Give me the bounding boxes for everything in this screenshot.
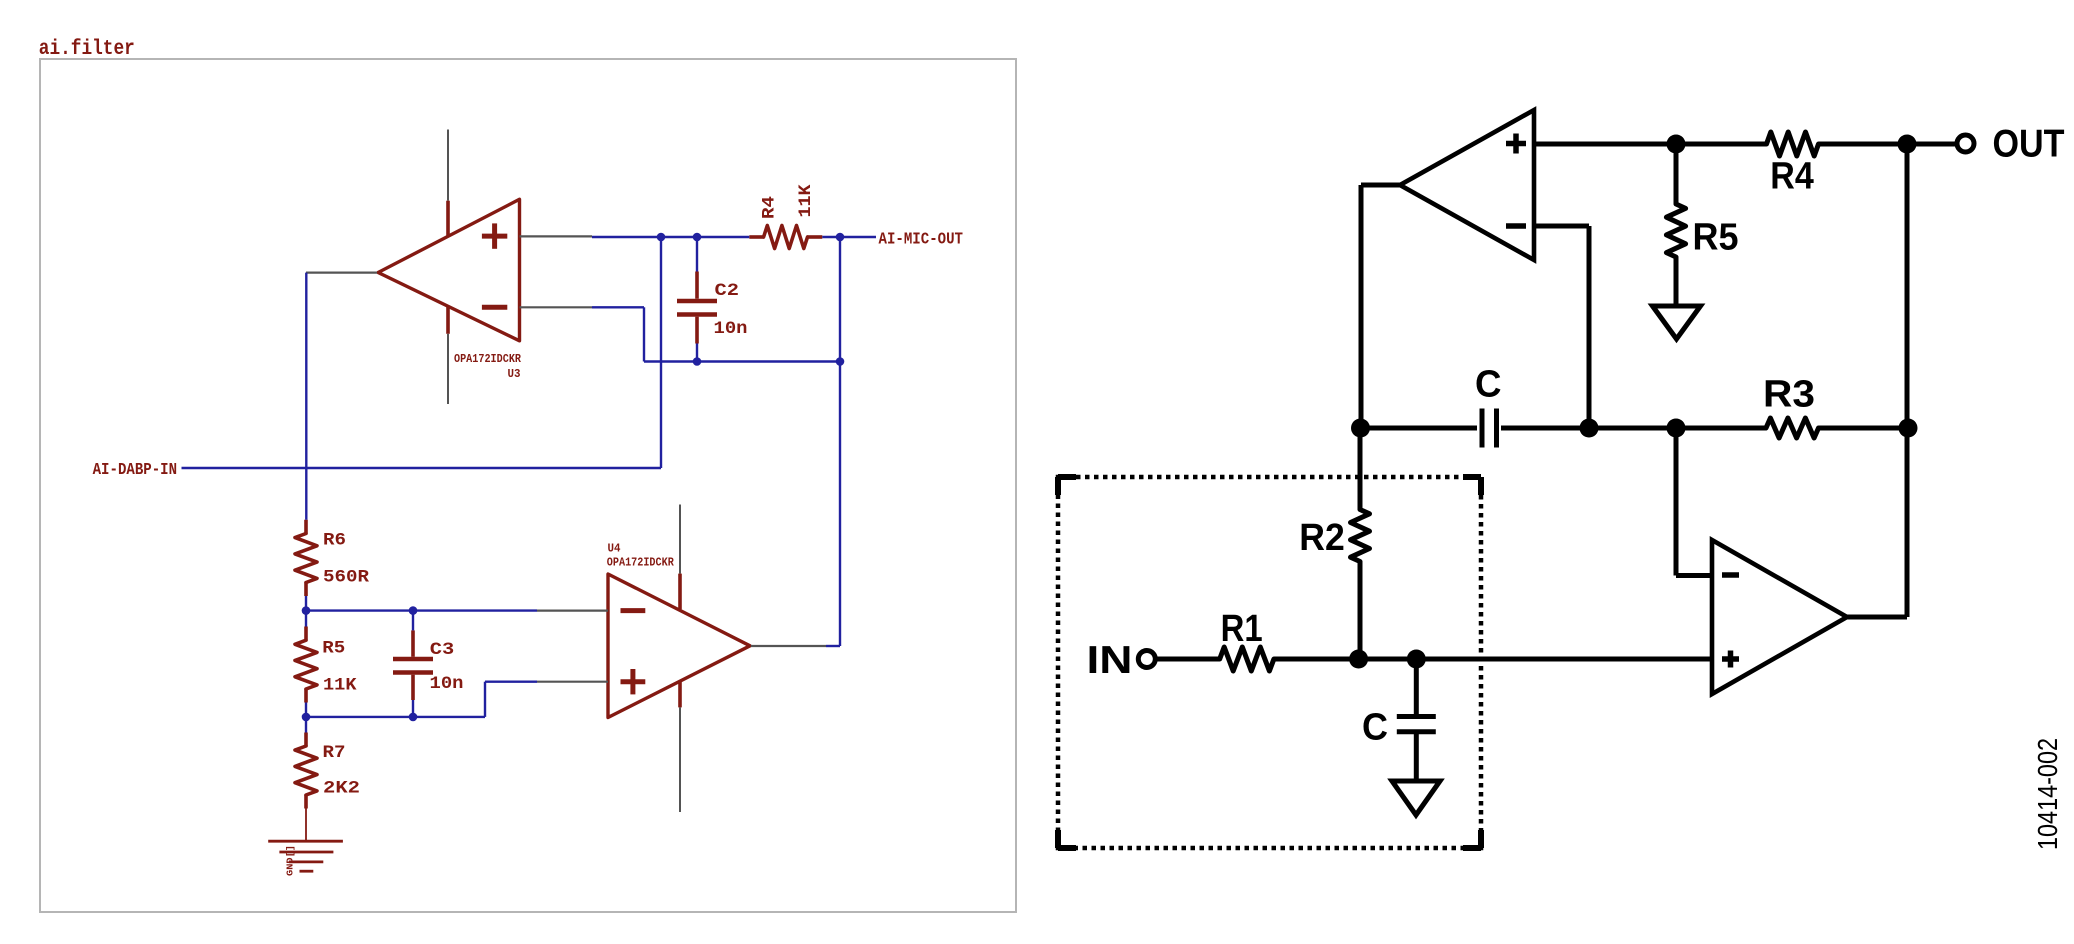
U3 plus input marker — [482, 234, 507, 239]
R4 reference label (rotated) — [760, 196, 780, 219]
figure number 10414-002 (rotated) — [2032, 738, 2063, 850]
A1 minus marker — [1506, 223, 1526, 229]
junction at rail/vertical — [836, 357, 845, 366]
svg-text:560R: 560R — [323, 568, 370, 588]
wire vertical to U3 + net — [660, 237, 662, 468]
resistor R4 body — [749, 235, 763, 239]
IN terminal circle — [1138, 651, 1155, 668]
resistor R4 body (right figure) — [1767, 132, 1819, 156]
svg-text:C: C — [1362, 706, 1388, 748]
svg-text:R6: R6 — [323, 531, 346, 551]
resistor R5 body — [304, 627, 308, 641]
U4 V- power pin — [678, 681, 682, 707]
ground GNDREF symbol — [305, 809, 307, 842]
wire up to U4 + input — [484, 682, 486, 717]
svg-text:11K: 11K — [323, 676, 357, 696]
resistor R6 body — [304, 520, 308, 534]
svg-text:OPA172IDCKR: OPA172IDCKR — [607, 555, 675, 569]
junction R5/R7 — [302, 713, 311, 722]
junction dot C line at R3 — [1667, 419, 1686, 438]
svg-text:C2: C2 — [715, 281, 740, 301]
wire R3 to right vertical — [1819, 426, 1909, 431]
junction dot R2 bottom — [1349, 650, 1368, 669]
svg-text:2K2: 2K2 — [323, 778, 360, 798]
dotted box corner marks — [1058, 474, 1076, 480]
resistor R2 body — [1351, 510, 1370, 562]
wire R5 top — [1674, 144, 1679, 204]
wire junction to R5 — [305, 611, 307, 627]
wire U3 - input — [592, 306, 644, 308]
resistor R1 body — [1220, 647, 1274, 671]
junction dot C line left — [1351, 419, 1370, 438]
wire C3 bottom — [412, 700, 414, 717]
A1 plus marker — [1506, 141, 1526, 147]
wire C2 bottom — [696, 344, 698, 362]
wire feedback rail — [644, 360, 840, 362]
op-amp U4 body — [608, 574, 750, 718]
U3 minus input marker — [482, 305, 507, 310]
wire R6 to junction — [305, 596, 307, 611]
wire A1 + input line — [1534, 142, 1767, 147]
junction dot C line mid — [1580, 419, 1599, 438]
svg-text:R4: R4 — [760, 196, 780, 219]
wire to U4 + pin — [485, 681, 537, 683]
svg-text:R2: R2 — [1299, 517, 1345, 559]
wire IN to R1 — [1156, 657, 1220, 662]
wire AI-DABP-IN horizontal — [182, 467, 662, 469]
junction R6/R5 — [302, 606, 311, 615]
svg-text:ai.filter: ai.filter — [39, 38, 135, 61]
junction at C2 top — [693, 233, 702, 242]
wire R2 vertical top — [1358, 428, 1363, 510]
svg-text:R3: R3 — [1763, 374, 1815, 416]
svg-text:AI-DABP-IN: AI-DABP-IN — [93, 460, 178, 479]
ground net name (rotated) — [286, 845, 296, 876]
junction at C2 bottom — [693, 357, 702, 366]
wire bottom rail — [306, 716, 485, 718]
svg-text:R1: R1 — [1221, 608, 1263, 650]
wire mid rail to U4 - input — [306, 609, 537, 611]
junction at AI-MIC-OUT — [836, 233, 845, 242]
junction dot R3 right — [1899, 419, 1918, 438]
junction at + net / DABP — [657, 233, 666, 242]
wire A1 output left — [1361, 183, 1400, 188]
A2 minus marker — [1722, 572, 1739, 578]
wire AI-MIC-OUT vertical — [839, 237, 841, 646]
svg-text:R4: R4 — [1770, 155, 1814, 197]
wire - A2 vertical — [1674, 428, 1679, 576]
U4 inverting input pin (-) — [537, 609, 608, 611]
ground symbol below input C — [1392, 781, 1440, 815]
junction C3 top rail — [409, 606, 418, 615]
U3 inverting input pin (-) — [520, 306, 593, 308]
wire C2 top — [696, 237, 698, 272]
svg-text:U4: U4 — [608, 542, 621, 556]
op-amp A2 body (pointing right) — [1712, 540, 1847, 694]
wire U4 output to vertical — [826, 645, 840, 647]
op-amp U3 body — [378, 199, 519, 340]
U4 plus input marker — [621, 679, 646, 684]
op-amp A1 body (right figure, pointing left) — [1400, 110, 1534, 260]
schematic sheet border — [40, 59, 1016, 912]
svg-text:IN: IN — [1087, 639, 1133, 682]
wire C input vertical — [1414, 659, 1419, 714]
svg-text:10n: 10n — [714, 319, 748, 339]
svg-text:11K: 11K — [796, 184, 816, 218]
svg-text:AI-MIC-OUT: AI-MIC-OUT — [879, 229, 964, 248]
U4 minus input marker — [621, 608, 646, 613]
capacitor C (input) plates — [1397, 714, 1436, 719]
capacitor C3 body — [411, 630, 415, 656]
wire R4 to OUT — [1819, 142, 1956, 147]
junction dot C input top — [1407, 650, 1426, 669]
wire - input down to C line — [1587, 226, 1592, 428]
junction dot at OUT node — [1898, 135, 1917, 154]
U4 V+ power pin — [679, 505, 681, 574]
svg-text:10414-002: 10414-002 — [2032, 738, 2063, 850]
U3 output pin — [306, 272, 377, 274]
U3 non-inverting input pin (+) — [520, 235, 593, 237]
svg-text:OPA172IDCKR: OPA172IDCKR — [454, 352, 522, 366]
OUT terminal circle — [1957, 135, 1974, 152]
ground symbol below R5 — [1653, 306, 1701, 339]
capacitor C2 body — [695, 272, 699, 299]
wire A1 - input right — [1534, 224, 1589, 229]
svg-text:OUT: OUT — [1993, 123, 2065, 166]
resistor R7 body — [304, 733, 308, 747]
wire junction2 to R7 — [305, 717, 307, 733]
capacitor C (feedback) plates — [1480, 409, 1485, 448]
svg-text:U3: U3 — [508, 367, 521, 381]
R4 value label 11K (rotated) — [796, 184, 816, 218]
wire C line left — [1361, 426, 1477, 431]
wire C input to ground — [1414, 732, 1419, 781]
wire C to R3 — [1501, 426, 1766, 431]
U4 output pin — [751, 645, 826, 647]
dotted boundary box — [1058, 477, 1481, 848]
wire R1 to A2 + input — [1274, 657, 1712, 662]
wire U3 output down — [305, 273, 307, 520]
wire R2 to IN line — [1358, 562, 1363, 660]
wire to A2 - input — [1676, 573, 1712, 578]
U3 V- power pin — [446, 306, 450, 334]
svg-text:GND[]: GND[] — [286, 845, 296, 876]
wire R4 to AI-MIC-OUT — [822, 236, 876, 238]
resistor R5 body (right figure) — [1666, 204, 1685, 257]
wire C3 top — [412, 611, 414, 631]
U4 non-inverting input pin (+) — [537, 681, 608, 683]
A2 plus marker — [1722, 656, 1739, 662]
junction C3 bottom rail — [409, 713, 418, 722]
svg-text:R7: R7 — [323, 743, 346, 763]
svg-text:10n: 10n — [430, 674, 464, 694]
wire left vertical down to C line — [1359, 185, 1364, 428]
wire U3 + input to R4 — [592, 236, 749, 238]
svg-text:R5: R5 — [322, 639, 345, 659]
svg-text:R5: R5 — [1693, 217, 1739, 259]
U3 V+ power pin — [447, 130, 449, 201]
svg-text:C3: C3 — [430, 640, 455, 660]
wire - input down — [643, 307, 645, 361]
svg-text:C: C — [1475, 364, 1502, 406]
junction dot at R5 top — [1667, 135, 1686, 154]
wire A2 output — [1847, 615, 1907, 620]
resistor R3 body — [1766, 418, 1819, 438]
wire R5 to junction2 — [305, 703, 307, 717]
wire R5 bottom — [1674, 257, 1679, 305]
wire right vertical OUT to A2 output — [1905, 144, 1910, 617]
